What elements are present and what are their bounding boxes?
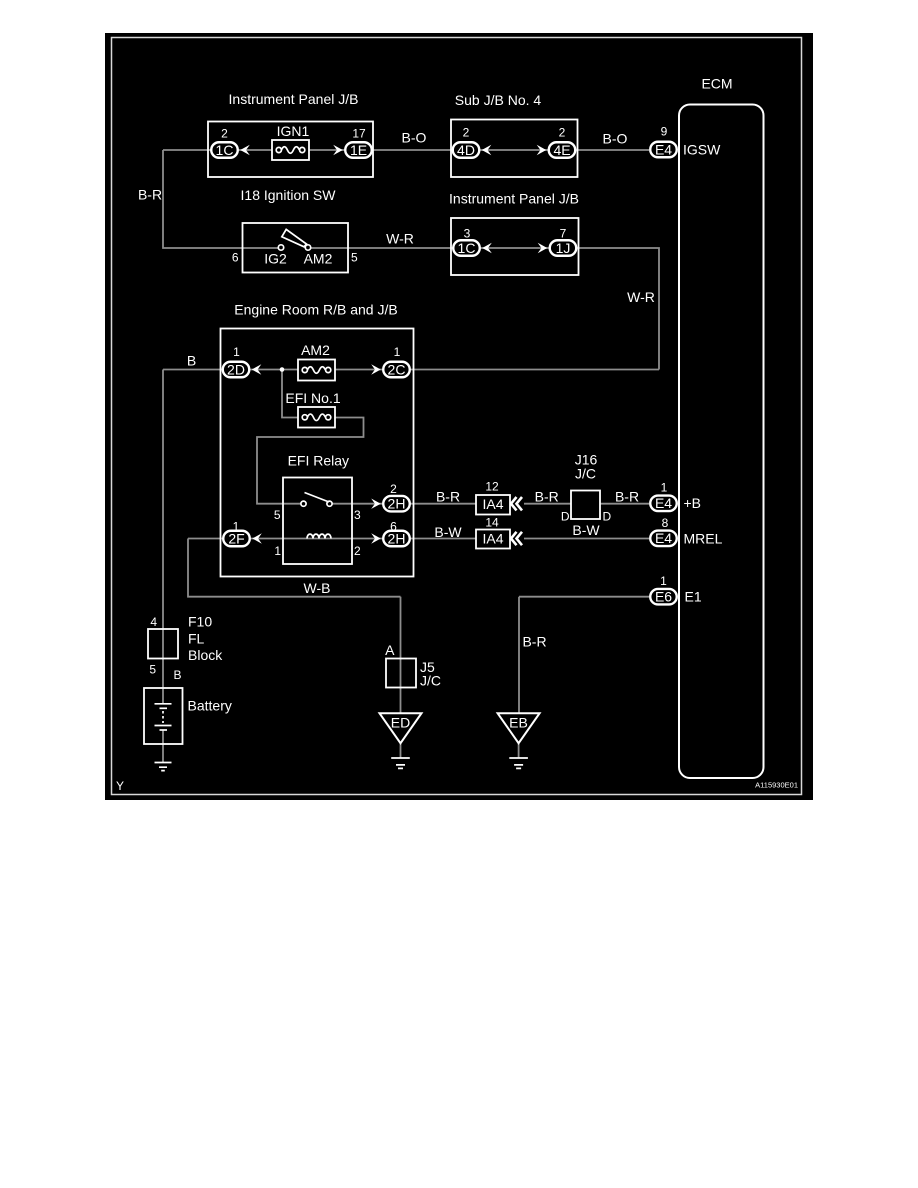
svg-text:B-R: B-R: [615, 489, 639, 505]
svg-text:2: 2: [221, 126, 228, 140]
svg-text:F10: F10: [188, 614, 212, 630]
svg-text:IA4: IA4: [482, 531, 503, 547]
svg-text:ED: ED: [391, 715, 410, 731]
svg-text:W-R: W-R: [627, 289, 655, 305]
svg-text:IA4: IA4: [482, 496, 503, 512]
svg-text:2D: 2D: [227, 361, 245, 377]
svg-text:E4: E4: [655, 530, 672, 546]
svg-text:A115930E01: A115930E01: [755, 781, 798, 790]
svg-text:7: 7: [560, 227, 567, 241]
svg-text:5: 5: [274, 508, 281, 522]
svg-text:3: 3: [354, 508, 361, 522]
svg-text:EB: EB: [509, 715, 528, 731]
svg-text:B-O: B-O: [402, 130, 427, 146]
svg-text:B-R: B-R: [436, 489, 460, 505]
svg-text:2H: 2H: [388, 530, 406, 546]
svg-text:5: 5: [149, 663, 156, 677]
svg-text:2: 2: [354, 544, 361, 558]
svg-text:2H: 2H: [388, 496, 406, 512]
svg-text:1C: 1C: [458, 240, 476, 256]
svg-text:Instrument Panel J/B: Instrument Panel J/B: [229, 91, 359, 107]
svg-text:I18 Ignition SW: I18 Ignition SW: [241, 187, 337, 203]
svg-text:Sub J/B No. 4: Sub J/B No. 4: [455, 92, 542, 108]
svg-text:Y: Y: [116, 779, 124, 793]
svg-text:B-R: B-R: [138, 187, 162, 203]
svg-text:2: 2: [390, 482, 397, 496]
svg-text:B-W: B-W: [434, 524, 462, 540]
svg-text:E4: E4: [655, 495, 672, 511]
svg-text:9: 9: [661, 125, 668, 139]
svg-text:1C: 1C: [216, 142, 234, 158]
svg-text:B: B: [174, 668, 182, 682]
svg-text:3: 3: [464, 227, 471, 241]
svg-text:MREL: MREL: [684, 531, 723, 547]
svg-text:D: D: [603, 510, 612, 524]
svg-text:2: 2: [559, 126, 566, 140]
svg-text:B-W: B-W: [572, 522, 600, 538]
svg-text:2: 2: [463, 126, 470, 140]
svg-text:AM2: AM2: [304, 251, 333, 267]
svg-text:AM2: AM2: [301, 342, 330, 358]
svg-text:1: 1: [394, 345, 401, 359]
svg-text:5: 5: [351, 251, 358, 265]
svg-text:B-R: B-R: [522, 634, 546, 650]
svg-text:J/C: J/C: [575, 466, 596, 482]
svg-text:4E: 4E: [553, 142, 570, 158]
svg-text:A: A: [385, 642, 395, 658]
svg-text:4: 4: [150, 615, 157, 629]
svg-text:B: B: [187, 353, 196, 369]
svg-text:E4: E4: [655, 141, 672, 157]
svg-text:8: 8: [662, 516, 669, 530]
svg-text:B-O: B-O: [603, 131, 628, 147]
svg-text:FL: FL: [188, 631, 205, 647]
svg-text:17: 17: [352, 126, 366, 140]
svg-text:IGN1: IGN1: [277, 123, 310, 139]
svg-text:W-B: W-B: [304, 580, 331, 596]
svg-text:ECM: ECM: [701, 76, 732, 92]
svg-text:1E: 1E: [350, 142, 367, 158]
svg-text:D: D: [561, 510, 570, 524]
svg-text:EFI Relay: EFI Relay: [288, 453, 349, 469]
svg-text:6: 6: [232, 251, 239, 265]
svg-text:E1: E1: [685, 589, 702, 605]
svg-text:IG2: IG2: [264, 251, 287, 267]
svg-text:Block: Block: [188, 647, 223, 663]
svg-text:1: 1: [661, 481, 668, 495]
svg-text:12: 12: [485, 480, 499, 494]
svg-text:2C: 2C: [388, 361, 406, 377]
svg-text:1: 1: [274, 544, 281, 558]
svg-text:IGSW: IGSW: [683, 142, 721, 158]
svg-text:1J: 1J: [556, 240, 571, 256]
svg-text:1: 1: [233, 345, 240, 359]
svg-text:B-R: B-R: [535, 489, 559, 505]
svg-text:+B: +B: [684, 495, 702, 511]
svg-text:EFI No.1: EFI No.1: [285, 390, 340, 406]
svg-text:1: 1: [660, 574, 667, 588]
svg-text:14: 14: [485, 516, 499, 530]
svg-text:E6: E6: [655, 589, 672, 605]
svg-text:W-R: W-R: [386, 231, 414, 247]
svg-text:2F: 2F: [228, 530, 244, 546]
svg-text:J/C: J/C: [420, 673, 441, 689]
svg-text:Instrument Panel J/B: Instrument Panel J/B: [449, 191, 579, 207]
svg-text:4D: 4D: [457, 142, 475, 158]
svg-text:Engine Room R/B and J/B: Engine Room R/B and J/B: [234, 302, 397, 318]
svg-text:Battery: Battery: [188, 698, 232, 714]
